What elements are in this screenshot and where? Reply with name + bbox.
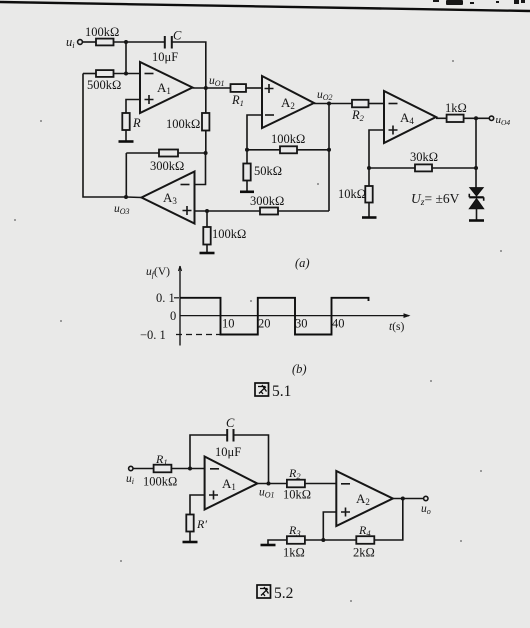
y axis <box>179 266 181 346</box>
node u_O1 (5.2) <box>257 483 287 485</box>
resistor R' <box>186 515 193 532</box>
node u_O1 output wire <box>193 87 231 89</box>
caption 图 5.2 <box>257 585 293 602</box>
op-amp A3 (points left) <box>142 172 195 224</box>
feedback wire from u_O3 to A1 inverting input <box>83 74 126 198</box>
resistor 10k <box>365 186 372 203</box>
node 300k junction <box>204 151 208 155</box>
svg-text:5.1: 5.1 <box>272 383 291 400</box>
svg-text:Uz= ±6V: Uz= ±6V <box>411 191 460 208</box>
wire A2 - input down to feedback <box>247 115 262 150</box>
wire A1 + to R' <box>190 495 205 515</box>
resistor 100k (input) <box>96 39 114 46</box>
wire R1 to A1 <box>171 468 204 470</box>
wire input to R <box>83 41 97 43</box>
input terminal u_i <box>78 40 83 45</box>
svg-text:30kΩ: 30kΩ <box>410 150 438 164</box>
wire R3 to node <box>305 539 323 541</box>
svg-text:R′: R′ <box>196 517 207 531</box>
svg-text:10: 10 <box>222 317 235 331</box>
capacitor C (5.2) <box>227 429 233 442</box>
ground (A1 +) <box>119 140 134 143</box>
wire output column down to zeners <box>475 118 477 188</box>
wire R' to ground <box>189 532 191 542</box>
resistor 100k (below u_O1) <box>205 88 207 113</box>
ground (A3 100k) <box>200 252 215 255</box>
wire A3 - input up to 300k <box>195 153 206 185</box>
x axis t <box>180 315 409 317</box>
input terminal u_i (5.2) <box>129 466 133 470</box>
resistor R1 <box>231 84 247 92</box>
svg-text:2kΩ: 2kΩ <box>353 546 375 560</box>
op-amp A1 (5.2) <box>205 457 258 510</box>
resistor R2 <box>352 100 369 108</box>
scan speckles <box>14 60 502 602</box>
op-amp A4 <box>384 91 436 143</box>
svg-text:300kΩ: 300kΩ <box>150 159 184 173</box>
svg-text:(a): (a) <box>295 256 310 270</box>
wire u_O2 column down <box>328 104 330 212</box>
resistor R <box>122 113 129 130</box>
wire output down to R4 <box>374 499 403 541</box>
wire to cap <box>114 41 165 43</box>
svg-text:300kΩ: 300kΩ <box>250 194 284 208</box>
resistor R4 <box>356 536 374 544</box>
op-amp A2 (5.2) <box>336 471 393 526</box>
zener pair Dz <box>470 188 483 196</box>
svg-text:R: R <box>132 116 141 130</box>
svg-text:100kΩ: 100kΩ <box>212 227 246 241</box>
svg-text:10μF: 10μF <box>152 50 178 64</box>
output terminal u_O4 <box>464 117 490 119</box>
square wave u_i <box>180 298 369 335</box>
wire R1 to A2 <box>246 87 262 89</box>
node A junction <box>124 40 128 44</box>
svg-text:0. 1: 0. 1 <box>156 291 175 305</box>
svg-text:5.2: 5.2 <box>274 585 293 602</box>
wire R2 to A2 <box>305 483 336 485</box>
svg-text:100kΩ: 100kΩ <box>166 117 200 131</box>
svg-text:500kΩ: 500kΩ <box>87 78 121 92</box>
feedback wire top <box>190 435 227 469</box>
resistor R3 <box>287 536 305 544</box>
node A3 + junction <box>205 209 209 213</box>
ground (R3) <box>261 544 276 547</box>
resistor 300k (lower, to A3 +) <box>278 210 329 212</box>
svg-text:10μF: 10μF <box>215 445 241 459</box>
node u_O2 output wire <box>314 103 352 105</box>
ground (10k) <box>362 216 377 219</box>
wire node A down to inverting input <box>125 42 127 74</box>
page top rule <box>0 2 530 11</box>
wire R4 to node <box>323 539 356 541</box>
ground (50k) <box>240 191 254 194</box>
svg-text:100kΩ: 100kΩ <box>85 25 119 39</box>
svg-text:1kΩ: 1kΩ <box>445 101 467 115</box>
wire node up to A2 + <box>323 512 336 540</box>
wire 10k to ground <box>368 203 370 218</box>
svg-text:−0. 1: −0. 1 <box>140 328 166 342</box>
header remnant marks <box>433 0 525 5</box>
caption 图 5.1 <box>255 383 291 400</box>
ground (R') <box>183 541 198 544</box>
ground (zener) <box>469 219 484 222</box>
wire cap to output column <box>172 42 206 88</box>
resistor 100k (A2 feedback) <box>247 149 280 151</box>
svg-text:10kΩ: 10kΩ <box>338 187 366 201</box>
svg-text:t(s): t(s) <box>389 321 405 333</box>
wire A1 + input to R <box>126 100 140 114</box>
resistor 1k <box>436 117 447 119</box>
resistor 100k (A3 + to ground) <box>206 211 208 227</box>
node u_O3 <box>124 195 128 199</box>
wire 300k down to u_O3 <box>125 153 127 197</box>
svg-text:uf(V): uf(V) <box>146 266 170 279</box>
svg-text:50kΩ: 50kΩ <box>254 164 282 178</box>
svg-text:C: C <box>226 416 235 430</box>
resistor 500k <box>83 73 96 75</box>
svg-text:20: 20 <box>258 317 271 331</box>
svg-text:0: 0 <box>170 309 176 323</box>
wire A4 + input <box>369 130 384 186</box>
svg-text:100kΩ: 100kΩ <box>271 132 305 146</box>
capacitor C <box>165 36 172 49</box>
resistor R1 (5.2) <box>133 468 153 470</box>
svg-text:(b): (b) <box>292 362 307 376</box>
svg-text:C: C <box>173 29 182 43</box>
resistor R2 (5.2) <box>287 480 305 488</box>
wire R3 to ground <box>268 540 287 545</box>
wire R2 to A4 <box>369 103 385 105</box>
resistor 30k <box>369 167 415 169</box>
svg-text:10kΩ: 10kΩ <box>283 488 311 502</box>
resistor 300k (A3 feedback) <box>126 152 159 154</box>
wire R to ground <box>125 130 127 141</box>
svg-text:100kΩ: 100kΩ <box>143 475 177 489</box>
op-amp A1 <box>140 62 193 113</box>
dashed -0.1 reference <box>176 334 220 336</box>
resistor 50k <box>246 150 248 164</box>
svg-text:40: 40 <box>332 317 345 331</box>
svg-text:30: 30 <box>295 317 308 331</box>
op-amp A2 <box>262 76 314 128</box>
output terminal u_o (5.2) <box>393 498 424 500</box>
svg-text:1kΩ: 1kΩ <box>283 546 305 560</box>
